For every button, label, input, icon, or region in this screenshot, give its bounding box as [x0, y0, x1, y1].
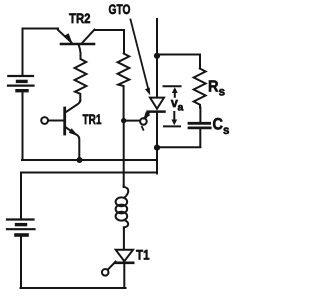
node junction dot snubber return — [154, 145, 160, 151]
wire battery B2 bottom lead — [20, 237, 22, 288]
svg-text:s: s — [219, 86, 225, 98]
svg-text:TR1: TR1 — [83, 111, 102, 127]
transistor TR1 — [41, 101, 80, 158]
node junction dot anode / Rs tap — [154, 53, 160, 59]
svg-text:GTO: GTO — [109, 2, 131, 17]
thyristor T1 — [102, 250, 133, 288]
wire B horizontal — [21, 172, 157, 174]
node junction dot gate tap — [121, 118, 126, 123]
battery B2 — [7, 220, 35, 236]
capacitor Cs — [189, 108, 210, 148]
svg-text:TR2: TR2 — [69, 10, 91, 26]
wire inductor to T1 — [123, 227, 125, 249]
svg-text:a: a — [178, 101, 184, 113]
node junction dot TR1 emitter / wire A — [77, 157, 83, 163]
wire A horizontal — [22, 159, 157, 161]
svg-text:R: R — [208, 79, 219, 96]
va annotation — [164, 86, 181, 126]
arrow GTO pointer — [131, 20, 151, 96]
wire GTO anode vertical — [156, 19, 158, 97]
inductor L1 — [116, 186, 129, 230]
resistor (TR2 base) — [75, 53, 87, 101]
wire TR2 collector to middle resistor — [95, 30, 125, 54]
wire battery B1 bottom lead — [22, 93, 24, 161]
svg-text:C: C — [213, 116, 224, 134]
transistor TR2 — [58, 30, 95, 54]
resistor middle (anode series) — [118, 54, 130, 121]
battery B1 — [8, 76, 34, 91]
wire B left stub down — [20, 173, 22, 219]
wire Cs return — [157, 146, 200, 148]
svg-text:s: s — [223, 125, 229, 137]
wire bottom horizontal — [21, 287, 126, 289]
thyristor GTO — [140, 98, 164, 174]
wire gate tap to GTO — [125, 120, 140, 122]
wire top-left horizontal — [23, 28, 59, 30]
wire resistor lead crossing A and B — [123, 121, 125, 187]
wire to Rs — [157, 55, 200, 69]
resistor Rs — [194, 69, 206, 108]
wire left rail top — [22, 29, 24, 75]
svg-text:T1: T1 — [136, 247, 150, 263]
